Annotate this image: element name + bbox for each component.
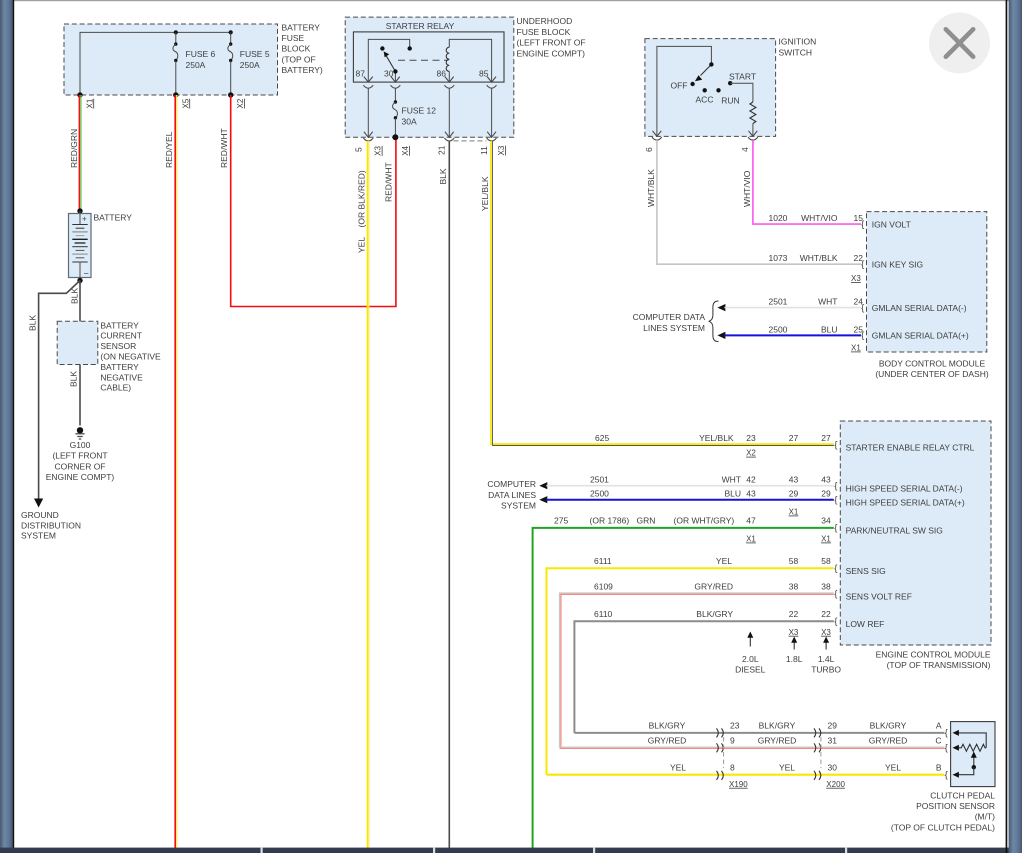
node: START contact — [728, 81, 732, 85]
svg-text:CURRENT: CURRENT — [100, 331, 142, 341]
svg-text:42: 42 — [746, 475, 756, 485]
svg-text:(TOP OF: (TOP OF — [282, 54, 316, 64]
svg-text:A: A — [936, 721, 942, 731]
svg-text:BLK/GRY: BLK/GRY — [696, 609, 733, 619]
svg-text:BLK/GRY: BLK/GRY — [759, 721, 796, 731]
ECM pin: sens volt ref — [834, 588, 912, 601]
svg-text:RUN: RUN — [721, 96, 739, 106]
svg-text:UNDERHOOD: UNDERHOOD — [517, 16, 573, 26]
sensor internal: resistor — [953, 744, 987, 751]
engine variant arrow 2.0L diesel — [735, 632, 766, 675]
clutch pedal position sensor box — [951, 722, 995, 787]
svg-text:{: { — [861, 330, 864, 341]
node: OFF contact — [690, 82, 694, 86]
svg-text:LOW REF: LOW REF — [846, 619, 885, 629]
ECM pin: high speed serial data(-) — [834, 480, 963, 493]
sensor pin B connector — [936, 763, 948, 781]
svg-text:SYSTEM: SYSTEM — [501, 501, 536, 511]
ignition switch lever — [695, 64, 712, 81]
svg-text:38: 38 — [789, 581, 799, 591]
svg-text:C: C — [935, 736, 941, 746]
svg-text:SENS SIG: SENS SIG — [846, 566, 886, 576]
svg-text:47: 47 — [746, 516, 756, 526]
svg-text:6110: 6110 — [594, 609, 613, 619]
svg-text:X5: X5 — [181, 98, 190, 108]
close button — [929, 13, 990, 74]
resistor: ignition start circuit — [730, 83, 756, 129]
svg-text:−: − — [84, 269, 89, 279]
sensor pin C connector — [935, 736, 947, 754]
computer data lines system (ECM side) — [487, 479, 536, 511]
svg-text:+: + — [82, 215, 87, 224]
svg-text:43: 43 — [746, 489, 756, 499]
label: circuit 1073 WHT/BLK 22 X3 — [769, 253, 864, 283]
svg-text:{: { — [861, 302, 864, 313]
ECM pin: park/neutral sw sig — [834, 523, 943, 536]
svg-text:X3: X3 — [851, 274, 861, 283]
svg-text:2500: 2500 — [590, 489, 609, 499]
ground distribution system label — [21, 510, 81, 541]
ground G100 — [46, 427, 115, 482]
svg-text:(OR 1786): (OR 1786) — [590, 516, 630, 526]
svg-text:IGN KEY SIG: IGN KEY SIG — [872, 259, 923, 269]
svg-text:(OR WHT/GRY): (OR WHT/GRY) — [674, 516, 735, 526]
svg-text:YEL: YEL — [885, 763, 901, 773]
wire GRN park/neutral sw sig — [533, 516, 834, 849]
connector link dashed verticals — [724, 737, 821, 768]
svg-text:27: 27 — [789, 433, 799, 443]
svg-text:RED/YEL: RED/YEL — [164, 131, 174, 168]
svg-text:FUSE 6: FUSE 6 — [186, 49, 216, 59]
svg-text:WHT/BLK: WHT/BLK — [800, 253, 838, 263]
svg-text:GRY/RED: GRY/RED — [694, 581, 733, 591]
battery — [69, 211, 133, 279]
sensor internal: pin A lead — [953, 730, 987, 748]
node: terminal X2 — [228, 92, 245, 108]
wire YEL/BLK from terminal 11 to ECM — [480, 141, 834, 446]
ECM pin: starter enable relay ctrl — [834, 440, 974, 453]
BCM pin 24 connector — [861, 302, 967, 313]
node: terminal X1 — [77, 92, 94, 108]
svg-text:GMLAN SERIAL DATA(+): GMLAN SERIAL DATA(+) — [872, 331, 969, 341]
svg-text:{: { — [945, 743, 948, 754]
relay pin labels — [356, 69, 489, 79]
svg-text:22: 22 — [821, 609, 831, 619]
svg-text:BATTERY: BATTERY — [94, 213, 133, 223]
wire BLK/GRY to clutch sensor pin A — [574, 721, 944, 733]
svg-text:STARTER RELAY: STARTER RELAY — [386, 21, 455, 31]
relay pin 30 exit arrow and connector — [391, 77, 401, 102]
svg-text:X200: X200 — [826, 780, 845, 789]
relay linkage (dashed) — [398, 59, 448, 61]
svg-text:30: 30 — [384, 69, 394, 79]
fuse F6 250A — [173, 32, 216, 95]
svg-text:SYSTEM: SYSTEM — [21, 531, 56, 541]
svg-text:4: 4 — [740, 147, 750, 152]
relay pin 87 exit arrow and connector — [363, 77, 373, 130]
node: ignition rotor dot — [709, 62, 713, 66]
svg-text:YEL/BLK: YEL/BLK — [699, 433, 734, 443]
svg-text:{: { — [834, 563, 837, 574]
svg-text:X1: X1 — [789, 508, 799, 517]
battery fuse block label — [282, 23, 323, 75]
fuse F12 30A — [393, 100, 437, 137]
label row 625 YEL/BLK — [595, 433, 831, 458]
viewer frame: left black line — [13, 0, 15, 853]
body control module (dashed box) — [867, 212, 987, 352]
svg-text:STARTER ENABLE RELAY CTRL: STARTER ENABLE RELAY CTRL — [846, 443, 975, 453]
svg-text:DISTRIBUTION: DISTRIBUTION — [21, 520, 81, 530]
svg-text:X3: X3 — [789, 628, 799, 637]
svg-text:6: 6 — [644, 147, 654, 152]
svg-text:31: 31 — [828, 736, 838, 746]
svg-text:GRY/RED: GRY/RED — [648, 736, 687, 746]
svg-text:ACC: ACC — [696, 95, 714, 105]
svg-text:POSITION SENSOR: POSITION SENSOR — [916, 801, 995, 811]
wire BLK/GRY low ref — [574, 609, 833, 733]
viewer frame: bottom slate bar — [0, 848, 1022, 853]
node: relay fixed contact left — [380, 46, 384, 50]
wire YEL from terminal 5 — [357, 141, 370, 848]
svg-text:(TOP OF CLUTCH PEDAL): (TOP OF CLUTCH PEDAL) — [891, 822, 995, 832]
svg-text:GMLAN SERIAL DATA(-): GMLAN SERIAL DATA(-) — [872, 303, 967, 313]
svg-text:DIESEL: DIESEL — [735, 665, 766, 675]
wire BLK branch to ground distribution — [28, 281, 81, 508]
svg-text:43: 43 — [789, 475, 799, 485]
svg-text:YEL: YEL — [670, 763, 686, 773]
svg-text:{: { — [861, 219, 864, 230]
svg-text:SENS VOLT REF: SENS VOLT REF — [846, 592, 912, 602]
relay switch lever — [384, 51, 396, 82]
svg-text:(LEFT FRONT: (LEFT FRONT — [52, 451, 107, 461]
svg-text:23: 23 — [730, 721, 740, 731]
ignition position labels — [671, 72, 757, 106]
svg-text:BLOCK: BLOCK — [282, 44, 311, 54]
svg-text:X1: X1 — [746, 535, 756, 544]
svg-text:2501: 2501 — [590, 475, 609, 485]
sensor internal: wiper arm — [953, 752, 977, 778]
engine variant arrow 1.8L — [786, 637, 803, 665]
svg-text:RED/WHT: RED/WHT — [384, 162, 394, 202]
wire: ignition pin 6 riser — [657, 46, 712, 129]
svg-text:{: { — [945, 769, 948, 780]
svg-text:SWITCH: SWITCH — [779, 48, 813, 58]
relay pin 85 exit arrow and connector — [487, 77, 497, 130]
svg-text:38: 38 — [821, 581, 831, 591]
svg-text:BLK/GRY: BLK/GRY — [870, 721, 907, 731]
wire GRY/RED to clutch sensor pin C — [560, 736, 945, 749]
wire WHT/VIO ign volt — [742, 140, 861, 224]
svg-text:23: 23 — [746, 433, 756, 443]
svg-text:BODY CONTROL MODULE: BODY CONTROL MODULE — [879, 358, 986, 368]
svg-text:1073: 1073 — [769, 253, 788, 263]
fuse block exit: terminal 11 — [479, 130, 506, 156]
engine control module (dashed box) — [840, 421, 991, 645]
inline connector X190/X200 row C — [717, 743, 821, 752]
node: fuse block X4 junction — [392, 134, 398, 140]
wire BLU high speed serial data(+) — [539, 489, 834, 517]
svg-text:1.8L: 1.8L — [786, 654, 803, 664]
ignition switch (dashed box) — [645, 39, 776, 137]
ECM pin: low ref — [834, 616, 884, 629]
wire BLU gmlan(+) — [717, 324, 863, 352]
starter relay K1 — [353, 21, 504, 82]
svg-text:(ON NEGATIVE: (ON NEGATIVE — [100, 352, 161, 362]
svg-text:YEL: YEL — [779, 763, 795, 773]
svg-text:275: 275 — [554, 516, 568, 526]
svg-text:29: 29 — [789, 489, 799, 499]
battery current sensor label — [100, 320, 161, 392]
svg-text:OFF: OFF — [671, 81, 688, 91]
svg-text:9: 9 — [730, 736, 735, 746]
svg-text:(LEFT FRONT OF: (LEFT FRONT OF — [517, 38, 586, 48]
svg-text:FUSE 5: FUSE 5 — [240, 49, 270, 59]
svg-text:250A: 250A — [240, 60, 260, 70]
svg-text:30A: 30A — [402, 117, 417, 127]
battery current sensor (dashed box) — [57, 321, 98, 364]
svg-text:GRY/RED: GRY/RED — [758, 736, 797, 746]
svg-text:X1: X1 — [851, 344, 861, 353]
wire WHT gmlan(-) — [717, 297, 863, 312]
svg-text:BLU: BLU — [724, 489, 741, 499]
relay coil — [446, 39, 491, 82]
svg-text:WHT: WHT — [722, 475, 741, 485]
svg-text:IGN VOLT: IGN VOLT — [872, 219, 911, 229]
svg-text:43: 43 — [821, 475, 831, 485]
svg-text:BLK: BLK — [438, 168, 448, 184]
wire GRY/RED sens volt ref — [560, 581, 834, 748]
svg-text:BATTERY: BATTERY — [282, 23, 321, 33]
svg-text:29: 29 — [828, 721, 838, 731]
ignition pin 6 exit — [644, 129, 662, 152]
svg-text:58: 58 — [821, 556, 831, 566]
svg-text:WHT: WHT — [818, 297, 837, 307]
svg-text:BLK: BLK — [28, 315, 38, 331]
ECM label — [876, 650, 991, 671]
svg-text:8: 8 — [730, 763, 735, 773]
svg-text:START: START — [729, 72, 756, 82]
ECM pin: sens sig — [834, 563, 886, 576]
engine variant arrow 1.4L turbo — [811, 637, 841, 675]
svg-text:YEL: YEL — [716, 556, 732, 566]
wire RED/WHT from X2 to underhood fuse block — [219, 95, 396, 307]
svg-text:625: 625 — [595, 433, 609, 443]
wire: relay pin 87 to fixed contact — [368, 39, 409, 82]
svg-text:LINES SYSTEM: LINES SYSTEM — [643, 323, 705, 333]
svg-text:WHT/BLK: WHT/BLK — [646, 169, 656, 207]
relay pin 86 exit arrow and connector — [444, 77, 454, 130]
svg-text:ENGINE COMPT): ENGINE COMPT) — [46, 472, 115, 482]
underhood fuse block (dashed box) — [345, 17, 514, 137]
wire YEL sens sig — [547, 556, 834, 775]
svg-text:BLK: BLK — [69, 371, 79, 387]
svg-text:X190: X190 — [729, 780, 748, 789]
svg-text:COMPUTER: COMPUTER — [487, 479, 536, 489]
svg-text:34: 34 — [821, 516, 831, 526]
clutch pedal position sensor label — [891, 790, 995, 832]
wire BLK battery negative main — [69, 281, 81, 426]
wire WHT/BLK ign key sig — [646, 140, 861, 264]
svg-text:WHT/VIO: WHT/VIO — [742, 170, 752, 207]
svg-text:GRY/RED: GRY/RED — [869, 736, 908, 746]
fuse F5 250A — [228, 32, 270, 95]
svg-text:58: 58 — [789, 556, 799, 566]
svg-text:PARK/NEUTRAL SW SIG: PARK/NEUTRAL SW SIG — [846, 526, 943, 536]
BCM pin 25 connector — [861, 330, 969, 341]
svg-text:BATTERY: BATTERY — [100, 320, 139, 330]
svg-text:(TOP OF TRANSMISSION): (TOP OF TRANSMISSION) — [887, 660, 991, 670]
inline connector X190/X200 row B — [717, 771, 821, 780]
wire RED/GRN battery feed — [69, 95, 81, 211]
svg-text:SENSOR: SENSOR — [100, 341, 136, 351]
svg-text:BATTERY: BATTERY — [100, 362, 139, 372]
node: relay fixed contact right — [408, 46, 412, 50]
BCM pin 22 connector — [861, 259, 923, 270]
viewer frame: top hairline — [0, 0, 1022, 1]
wire: fuse block internal bus — [80, 32, 231, 95]
node: battery positive junction — [77, 208, 82, 213]
svg-text:COMPUTER DATA: COMPUTER DATA — [633, 312, 706, 322]
ignition pin 4 exit — [740, 129, 758, 152]
svg-text:RED/WHT: RED/WHT — [219, 128, 229, 168]
svg-text:30: 30 — [828, 763, 838, 773]
node: bus corner at fuse 5 — [229, 30, 233, 34]
battery fuse block (dashed box) — [64, 24, 278, 95]
svg-text:CLUTCH PEDAL: CLUTCH PEDAL — [930, 790, 995, 800]
node: terminal X5 — [173, 92, 190, 108]
svg-text:RED/GRN: RED/GRN — [69, 129, 79, 168]
svg-text:22: 22 — [789, 609, 799, 619]
svg-text:X3: X3 — [497, 145, 506, 155]
svg-text:GROUND: GROUND — [21, 510, 59, 520]
svg-text:X2: X2 — [236, 98, 245, 108]
node: relay armature pivot — [393, 69, 397, 73]
svg-text:X1: X1 — [85, 98, 94, 108]
svg-text:NEGATIVE: NEGATIVE — [100, 372, 143, 382]
node: RUN contact — [716, 88, 720, 92]
svg-text:TURBO: TURBO — [811, 665, 841, 675]
svg-text:X1: X1 — [821, 535, 831, 544]
wire YEL to clutch sensor pin B — [547, 763, 945, 789]
ignition switch label — [779, 37, 817, 58]
svg-text:5: 5 — [354, 147, 364, 152]
svg-text:29: 29 — [821, 489, 831, 499]
svg-text:1.4L: 1.4L — [818, 654, 835, 664]
svg-text:YEL/BLK: YEL/BLK — [480, 176, 490, 211]
wire WHT high speed serial data(-) — [539, 475, 834, 490]
svg-text:1020: 1020 — [769, 213, 788, 223]
underhood fuse block label — [517, 16, 586, 58]
viewer frame: right black line — [1006, 0, 1008, 853]
svg-text:BLK: BLK — [70, 288, 80, 304]
svg-text:GRN: GRN — [637, 516, 656, 526]
svg-text:X3: X3 — [821, 628, 831, 637]
ECM pin: high speed serial data(+) — [834, 494, 965, 507]
viewer frame: bottom bar separators — [261, 848, 848, 853]
svg-text:X3: X3 — [374, 145, 383, 155]
svg-text:2500: 2500 — [769, 324, 788, 334]
svg-text:21: 21 — [437, 145, 447, 155]
svg-text:(UNDER CENTER OF DASH): (UNDER CENTER OF DASH) — [875, 369, 989, 379]
svg-text:ENGINE COMPT): ENGINE COMPT) — [517, 48, 586, 58]
svg-text:{: { — [945, 728, 948, 739]
node: bus junction at fuse 6 — [174, 30, 178, 34]
svg-text:6111: 6111 — [594, 556, 612, 566]
viewer frame: right steel bar — [1009, 0, 1022, 853]
svg-text:YEL (OR BLK/RED): YEL (OR BLK/RED) — [357, 170, 367, 253]
svg-text:FUSE 12: FUSE 12 — [402, 106, 437, 116]
svg-text:2501: 2501 — [769, 297, 788, 307]
inline connector X190/X200 row A — [717, 728, 821, 737]
node: battery negative junction — [77, 278, 82, 283]
svg-text:6109: 6109 — [594, 581, 613, 591]
sensor pin A connector — [936, 721, 948, 739]
wire BLK from terminal 21 — [438, 141, 449, 848]
svg-text:HIGH SPEED SERIAL DATA(+): HIGH SPEED SERIAL DATA(+) — [846, 498, 965, 508]
svg-text:{: { — [834, 523, 837, 534]
svg-text:IGNITION: IGNITION — [779, 37, 817, 47]
svg-text:DATA LINES: DATA LINES — [488, 490, 536, 500]
connector link dashed 21-11 — [454, 140, 487, 142]
svg-text:250A: 250A — [186, 60, 206, 70]
fuse block exit: terminal 5 — [354, 130, 383, 156]
svg-text:X2: X2 — [746, 449, 756, 458]
svg-text:G100: G100 — [70, 440, 91, 450]
svg-text:BLU: BLU — [821, 324, 838, 334]
svg-text:{: { — [861, 259, 864, 270]
svg-text:BATTERY): BATTERY) — [282, 65, 323, 75]
svg-text:HIGH SPEED SERIAL DATA(-): HIGH SPEED SERIAL DATA(-) — [846, 484, 963, 494]
svg-text:2.0L: 2.0L — [742, 654, 759, 664]
wire RED/YEL to bottom — [164, 95, 177, 848]
BCM label — [875, 358, 989, 379]
fuse block exit: terminal 21 — [437, 130, 455, 155]
svg-text:FUSE BLOCK: FUSE BLOCK — [517, 27, 571, 37]
svg-text:CORNER OF: CORNER OF — [55, 461, 106, 471]
svg-text:FUSE: FUSE — [282, 33, 305, 43]
svg-text:11: 11 — [479, 146, 489, 155]
svg-text:{: { — [834, 494, 837, 505]
viewer frame: left steel bar — [0, 0, 13, 853]
svg-text:BLK/GRY: BLK/GRY — [649, 721, 686, 731]
node: ACC contact — [703, 88, 707, 92]
svg-text:{: { — [834, 588, 837, 599]
BCM pin 15 connector — [861, 219, 911, 230]
svg-text:CABLE): CABLE) — [100, 383, 131, 393]
svg-text:27: 27 — [821, 433, 831, 443]
svg-text:{: { — [834, 440, 837, 451]
svg-text:(M/T): (M/T) — [975, 812, 995, 822]
svg-text:B: B — [936, 763, 942, 773]
svg-text:WHT/VIO: WHT/VIO — [801, 213, 838, 223]
computer data lines system (BCM side) — [633, 301, 719, 342]
svg-text:X4: X4 — [401, 145, 410, 155]
label: circuit 1020 WHT/VIO 15 — [769, 213, 864, 223]
svg-text:ENGINE CONTROL MODULE: ENGINE CONTROL MODULE — [876, 650, 991, 660]
svg-text:{: { — [834, 616, 837, 627]
svg-text:{: { — [834, 480, 837, 491]
